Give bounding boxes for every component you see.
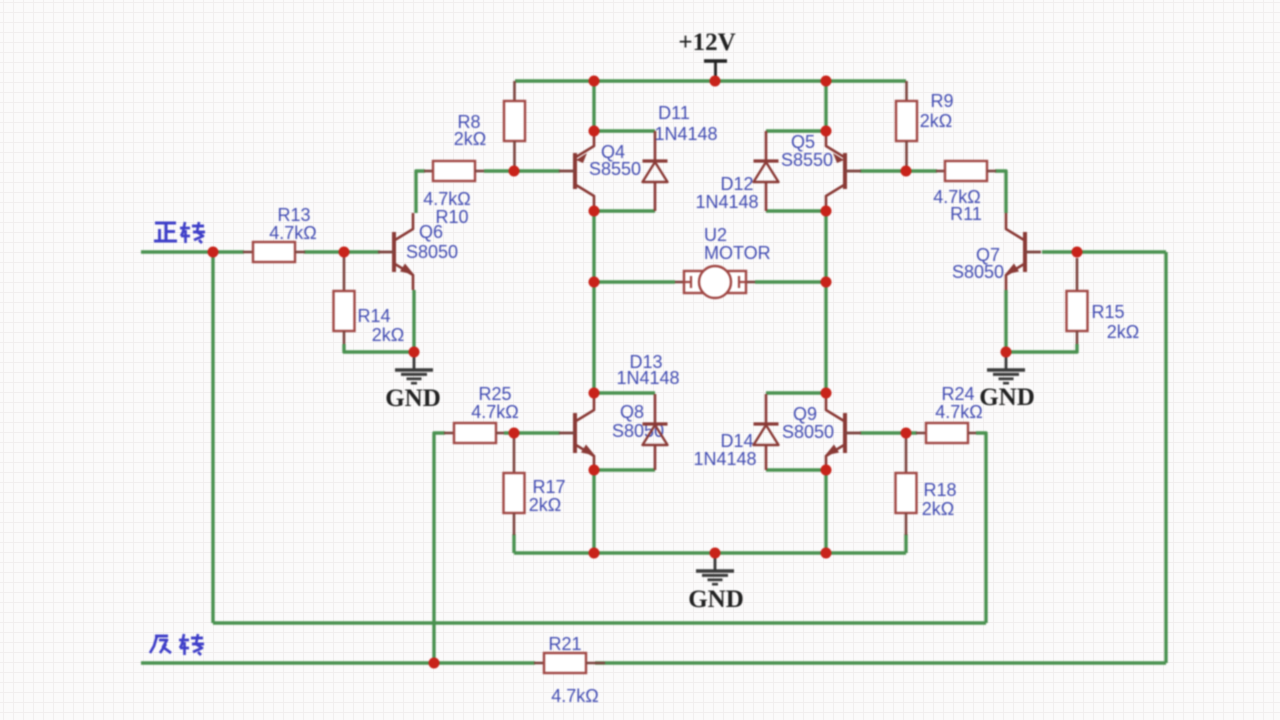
svg-text:U2: U2 xyxy=(704,225,727,245)
wire rail to Q5 emitter node xyxy=(824,81,827,131)
svg-text:R9: R9 xyxy=(930,91,953,111)
wire 正转 node down xyxy=(211,252,214,623)
wire D14 bottom to node H xyxy=(766,468,826,471)
wire Q6 emitter down xyxy=(412,290,415,352)
svg-text:R25: R25 xyxy=(478,384,511,404)
resistor R21 xyxy=(534,653,605,673)
svg-text:R15: R15 xyxy=(1091,302,1124,322)
wire Q7 base to right edge xyxy=(1042,250,1166,253)
svg-text:2kΩ: 2kΩ xyxy=(922,499,954,519)
diode D13 (1N4148) xyxy=(643,394,668,470)
svg-text:1N4148: 1N4148 xyxy=(654,124,717,144)
svg-text:S8050: S8050 xyxy=(406,242,458,262)
svg-text:R21: R21 xyxy=(548,634,581,654)
label GND right xyxy=(979,384,1035,411)
net label 反转 (reverse) xyxy=(150,634,204,655)
label R10 xyxy=(423,189,470,227)
label R21 xyxy=(548,634,598,706)
svg-text:D14: D14 xyxy=(720,431,753,451)
label R15 xyxy=(1091,302,1139,342)
svg-text:D11: D11 xyxy=(658,103,690,123)
wire R10 right to Q4 base xyxy=(484,169,560,172)
svg-text:4.7kΩ: 4.7kΩ xyxy=(471,402,518,422)
svg-text:2kΩ: 2kΩ xyxy=(454,129,486,149)
wire +12V rail (top) xyxy=(515,79,906,82)
wire left bridge vertical upper xyxy=(592,211,595,393)
transistor Q4 (PNP S8550) xyxy=(559,131,594,211)
net label +12V xyxy=(678,29,735,56)
wire R24 output down xyxy=(976,433,986,623)
resistor R10 xyxy=(424,161,484,181)
wire R14 bottom elbow xyxy=(344,344,414,352)
label D11 xyxy=(654,103,717,144)
label R24 xyxy=(935,384,982,422)
label Q8 xyxy=(612,402,664,441)
resistor R14 xyxy=(334,257,355,344)
wire motor left xyxy=(594,280,675,283)
resistor R8 xyxy=(504,81,525,171)
label R13 xyxy=(269,205,316,243)
label D14 xyxy=(693,431,756,469)
wire motor right xyxy=(755,280,826,283)
wire R15 bottom elbow xyxy=(1006,344,1077,352)
svg-text:R18: R18 xyxy=(923,480,956,500)
svg-text:+12V: +12V xyxy=(678,29,735,56)
svg-text:R17: R17 xyxy=(532,477,565,497)
wire Q7 emitter down xyxy=(1004,290,1007,352)
wire rail to Q4 emitter node xyxy=(592,81,595,131)
svg-text:Q9: Q9 xyxy=(793,404,817,424)
wire R17 bottom elbow xyxy=(512,534,515,553)
svg-text:Q5: Q5 xyxy=(791,132,815,152)
wire cross line bottom xyxy=(213,621,986,624)
label U2 MOTOR xyxy=(704,225,771,263)
label R11 xyxy=(933,187,982,224)
net label 正转 (forward) xyxy=(154,222,205,243)
wire D12 top to node B xyxy=(766,129,826,132)
power symbol +12V xyxy=(704,61,727,81)
resistor R18 xyxy=(896,438,917,535)
wire 正转 input xyxy=(141,250,244,253)
wire R18 bottom elbow xyxy=(904,534,907,553)
label Q9 xyxy=(782,404,834,442)
transistor Q8 (NPN S8050) xyxy=(559,393,595,470)
wire ground rail (bottom) xyxy=(514,551,906,554)
svg-text:Q8: Q8 xyxy=(620,402,644,422)
svg-text:GND: GND xyxy=(979,384,1035,411)
svg-text:R24: R24 xyxy=(941,384,974,404)
diode D11 (1N4148) xyxy=(643,131,668,211)
label Q5 xyxy=(781,132,833,170)
wire R21 to right edge xyxy=(595,661,1166,664)
label Q4 xyxy=(589,142,641,179)
resistor R15 xyxy=(1067,258,1088,344)
motor U2 xyxy=(675,266,755,298)
resistor R13 xyxy=(243,242,305,262)
wire D14 top to node F xyxy=(766,391,826,394)
diode D12 (1N4148) xyxy=(754,131,779,211)
svg-text:4.7kΩ: 4.7kΩ xyxy=(269,223,316,243)
wire right bridge vertical upper xyxy=(824,211,827,393)
label D12 xyxy=(695,174,758,212)
resistor R11 xyxy=(936,161,996,181)
junction dots (all nets) xyxy=(208,76,1083,669)
svg-text:4.7kΩ: 4.7kΩ xyxy=(935,402,982,422)
svg-text:S8050: S8050 xyxy=(782,422,834,442)
svg-text:2kΩ: 2kΩ xyxy=(920,111,952,131)
svg-text:1N4148: 1N4148 xyxy=(695,192,758,212)
wire 反转 input xyxy=(141,661,535,664)
transistor Q9 (NPN S8050) xyxy=(825,393,861,470)
wire right edge vertical xyxy=(1164,252,1167,663)
svg-text:R11: R11 xyxy=(950,204,982,224)
svg-text:4.7kΩ: 4.7kΩ xyxy=(423,189,470,209)
label R17 xyxy=(529,477,566,515)
svg-text:1N4148: 1N4148 xyxy=(616,368,679,388)
wire node A to D11 top xyxy=(594,129,655,132)
label D13 xyxy=(616,352,679,388)
resistor R17 xyxy=(504,438,525,535)
svg-text:S8050: S8050 xyxy=(952,262,1004,282)
label GND left xyxy=(385,385,441,412)
svg-text:R14: R14 xyxy=(357,306,390,326)
svg-text:2kΩ: 2kΩ xyxy=(1107,322,1139,342)
transistor Q5 (PNP S8550) xyxy=(826,131,861,211)
svg-text:2kΩ: 2kΩ xyxy=(372,325,404,345)
wire Q9 base to R24 xyxy=(860,431,917,434)
wire R25 right to Q8 base xyxy=(504,431,560,434)
wire D12 bottom to node D xyxy=(766,209,826,212)
transistor Q6 (NPN S8050) xyxy=(378,213,414,290)
resistor R25 xyxy=(444,423,504,443)
wire R13 to Q6 base xyxy=(304,250,380,253)
svg-text:MOTOR: MOTOR xyxy=(704,243,771,263)
ground (right, Q7 emitter) xyxy=(987,352,1025,383)
svg-text:1N4148: 1N4148 xyxy=(693,449,756,469)
ground (bottom rail) xyxy=(696,553,734,584)
svg-text:4.7kΩ: 4.7kΩ xyxy=(551,686,598,706)
label R8 xyxy=(454,112,486,149)
wire node G to D13 bottom xyxy=(594,468,655,471)
label GND middle xyxy=(688,586,744,613)
svg-text:2kΩ: 2kΩ xyxy=(529,495,561,515)
label R14 xyxy=(357,306,404,345)
resistor R9 xyxy=(896,81,917,171)
wire node C to D11 bottom xyxy=(594,209,655,212)
label Q7 xyxy=(952,245,1004,282)
wire node E to D13 top xyxy=(594,391,655,394)
label Q6 xyxy=(406,222,458,262)
wire Q5 base to R9 node to R11 xyxy=(860,169,937,172)
svg-text:D12: D12 xyxy=(720,174,753,194)
label R9 xyxy=(920,91,954,131)
ground (left, Q6 emitter) xyxy=(395,352,433,383)
label R25 xyxy=(471,384,518,422)
resistor R24 xyxy=(916,423,976,443)
wire left bridge vertical lower xyxy=(592,470,595,553)
svg-text:Q6: Q6 xyxy=(419,222,443,242)
svg-text:S8550: S8550 xyxy=(589,159,641,179)
wire R10 left elbow xyxy=(416,171,425,213)
wire R11 to Q7 collector elbow xyxy=(995,171,1006,213)
diode D14 (1N4148) xyxy=(754,394,779,470)
wire R25 left elbow / 反转 tap xyxy=(434,433,445,663)
wire right bridge vertical lower xyxy=(824,470,827,553)
transistor Q7 (NPN S8050) xyxy=(1005,213,1041,290)
svg-text:R13: R13 xyxy=(277,205,310,225)
svg-text:S8550: S8550 xyxy=(781,150,833,170)
label R18 xyxy=(922,480,957,519)
svg-text:GND: GND xyxy=(688,586,744,613)
svg-text:GND: GND xyxy=(385,385,441,412)
